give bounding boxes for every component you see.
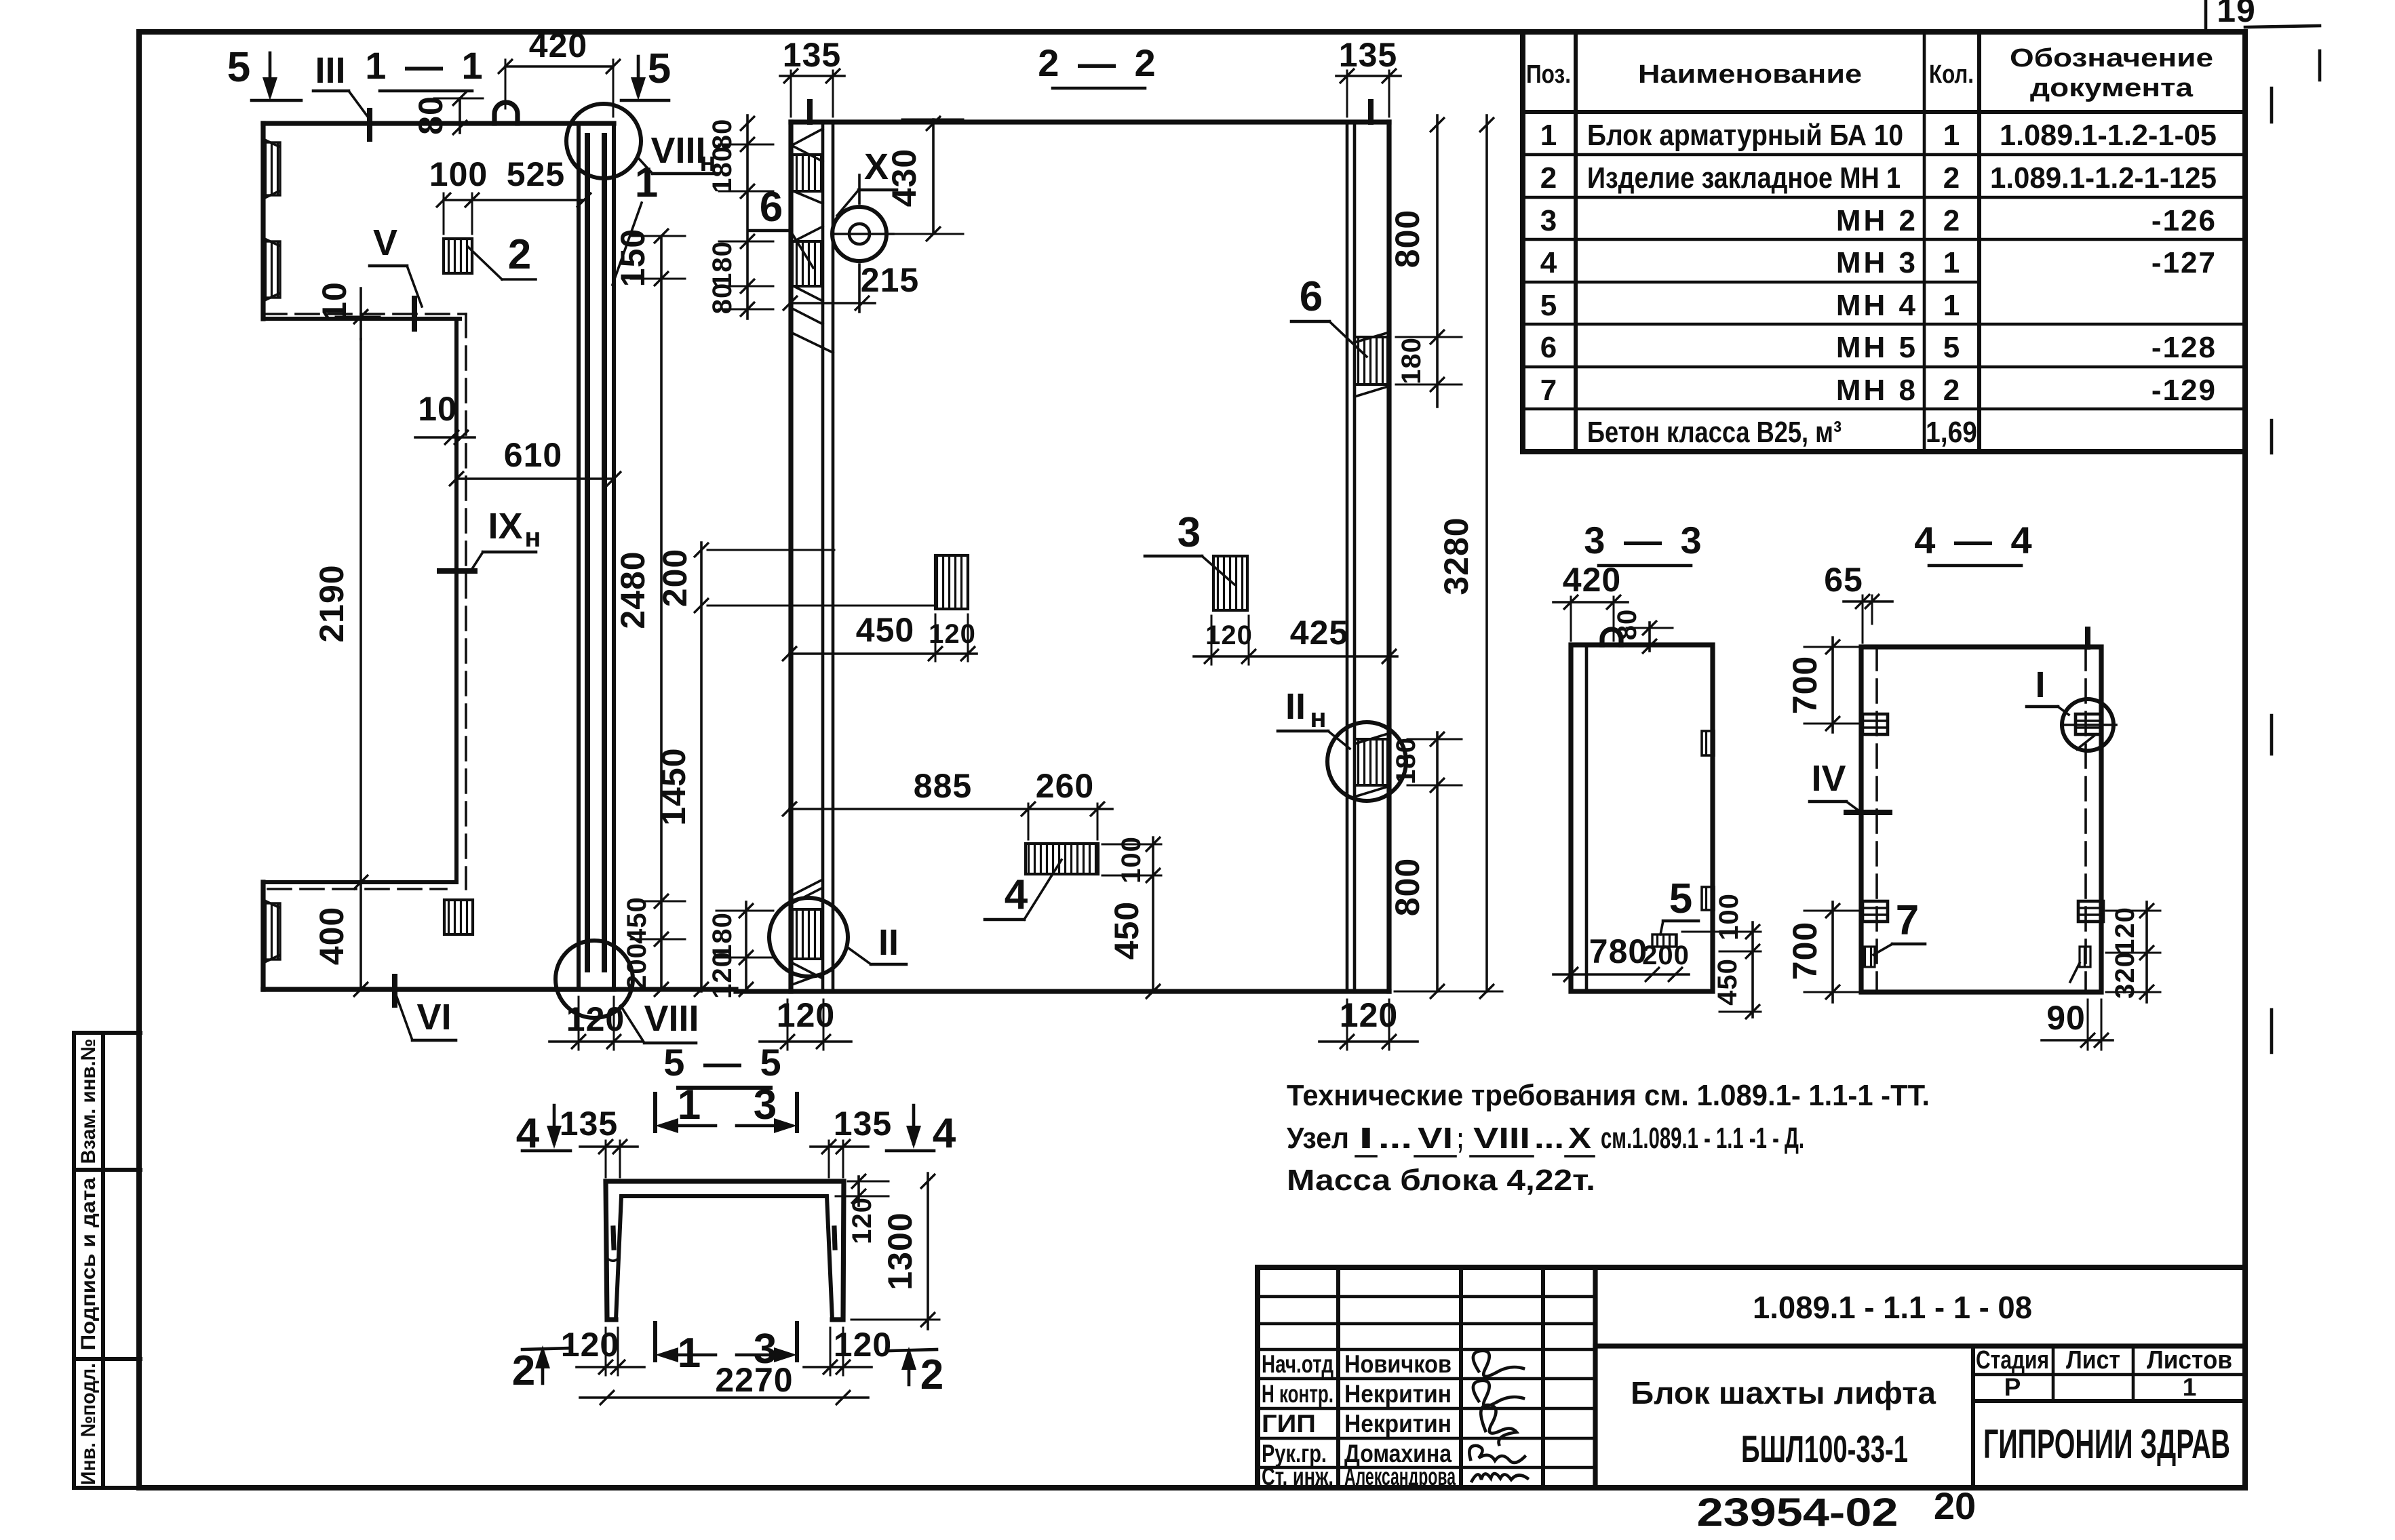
svg-text:Поз.: Поз. — [1526, 60, 1571, 89]
embed plate in lower-left block (hatched) — [444, 900, 473, 934]
dim 120 (bottom of left wall) — [787, 1000, 789, 1050]
svg-text:-128: -128 — [2151, 331, 2217, 364]
svg-text:X: X — [1568, 1122, 1591, 1155]
table column lines — [1574, 32, 1578, 452]
svg-text:5 — 5: 5 — 5 — [663, 1041, 785, 1084]
svg-text:180: 180 — [707, 241, 737, 288]
svg-text:II: II — [878, 922, 899, 963]
channel section outline 5-5 — [606, 1181, 844, 1320]
svg-text:Некритин: Некритин — [1344, 1380, 1452, 1408]
svg-text:120: 120 — [561, 1326, 619, 1364]
svg-text:Взам. инв.№: Взам. инв.№ — [77, 1039, 100, 1164]
svg-text:450: 450 — [622, 896, 652, 944]
embed plate 4 (hatched horizontal) — [1026, 844, 1098, 874]
svg-text:5: 5 — [648, 45, 671, 92]
svg-text:120: 120 — [929, 619, 976, 649]
svg-text:IX: IX — [488, 506, 522, 547]
upper edge embed tab 3-3 — [1702, 731, 1714, 755]
svg-text:10: 10 — [315, 281, 353, 321]
svg-text:260: 260 — [1036, 767, 1094, 805]
svg-text:135: 135 — [1339, 36, 1397, 74]
dim 65 (4-4 top left) — [1844, 600, 1892, 603]
svg-text:МН 8: МН 8 — [1836, 374, 1918, 407]
svg-text:Кол.: Кол. — [1929, 60, 1974, 89]
svg-text:120: 120 — [834, 1326, 892, 1364]
svg-text:3280: 3280 — [1437, 517, 1475, 595]
svg-text:2270: 2270 — [715, 1361, 793, 1399]
svg-text:2: 2 — [920, 1351, 943, 1398]
svg-text:610: 610 — [504, 436, 562, 474]
lifting loop on top edge — [494, 102, 518, 123]
anchor washer detail (node X) — [832, 207, 887, 261]
dim chain 180/120 (lower left inside) — [745, 902, 747, 991]
title block left rows — [1258, 1295, 1595, 1299]
view 1-1 right wall strip outer lines — [577, 123, 581, 989]
dim chain 2480 / 450 / 200 (right side) — [660, 279, 663, 989]
svg-text:200: 200 — [1642, 941, 1690, 970]
node II-n label and detail circle — [1327, 722, 1406, 801]
rebar dash right leg — [834, 1228, 835, 1248]
svg-text:1,69: 1,69 — [1926, 416, 1977, 449]
svg-text:4: 4 — [1540, 246, 1557, 279]
svg-text:400: 400 — [313, 907, 351, 965]
svg-text:2: 2 — [508, 231, 531, 278]
svg-text:120: 120 — [1205, 620, 1253, 650]
svg-text:1450: 1450 — [655, 747, 693, 825]
dim 120 (5-5 bottom right) — [830, 1328, 832, 1375]
rebar stub 4-4 — [2085, 629, 2090, 647]
dim chain 180/800 (right of 2-2, bottom) — [1436, 732, 1439, 991]
svg-text:1 — 1: 1 — 1 — [365, 44, 486, 87]
svg-text:1300: 1300 — [881, 1212, 919, 1290]
svg-text:VIII: VIII — [644, 998, 699, 1039]
embed right lower 4-4 — [2078, 901, 2103, 922]
svg-text:VIII: VIII — [650, 130, 705, 171]
svg-text:7: 7 — [1540, 374, 1557, 407]
svg-text:200: 200 — [656, 549, 694, 607]
svg-text:Масса блока 4,22т.: Масса блока 4,22т. — [1287, 1164, 1595, 1197]
signature squiggles — [1473, 1351, 1523, 1377]
small embed 7 right bottom 4-4 — [2080, 947, 2090, 967]
lower block top edge hidden dashed — [268, 888, 446, 890]
svg-text:IV: IV — [1811, 758, 1846, 799]
groove with embed, upper-left wall 1 — [263, 139, 279, 199]
svg-text:2480: 2480 — [614, 551, 652, 629]
dim 420 (top) — [505, 65, 613, 68]
fold marks right margin — [2270, 88, 2274, 122]
svg-text:180: 180 — [707, 146, 737, 193]
svg-text:120: 120 — [777, 996, 835, 1034]
svg-text:100: 100 — [1714, 893, 1744, 941]
svg-text:2: 2 — [1943, 204, 1960, 237]
view 1-1 top wall edge — [263, 121, 614, 125]
svg-text:3 — 3: 3 — 3 — [1584, 519, 1705, 561]
svg-text:80: 80 — [707, 119, 737, 151]
detail circle VIII-n (top of wall) — [566, 104, 641, 178]
svg-text:1: 1 — [635, 159, 658, 206]
dim 430 (top right area of 2-2) — [932, 119, 935, 234]
dim 135 (right wall top) — [1336, 75, 1401, 77]
embed left upper 4-4 — [1863, 714, 1888, 734]
svg-text:1: 1 — [1943, 289, 1960, 322]
section mark 3 (bottom) — [795, 1323, 799, 1360]
svg-text:5: 5 — [227, 44, 250, 91]
svg-text:Нач.отд: Нач.отд — [1262, 1350, 1333, 1378]
svg-text:Александрова: Александрова — [1344, 1463, 1456, 1490]
view 1-1 left wall edge (upper block) — [260, 123, 265, 319]
dim 80 (3-3 loop) — [1648, 623, 1651, 651]
svg-text:4: 4 — [933, 1110, 956, 1157]
dim 3280 (overall height) — [1485, 115, 1488, 991]
svg-text:450: 450 — [1108, 901, 1146, 960]
dim 120 (bottom of right wall) — [1346, 1000, 1348, 1050]
underline roman VI — [1415, 1155, 1456, 1158]
dim chain 80/180/180/80 (left of 2-2) — [746, 115, 749, 319]
svg-text:н: н — [1310, 703, 1327, 733]
svg-text:700: 700 — [1786, 922, 1824, 980]
svg-text:120: 120 — [566, 1000, 625, 1038]
svg-text:см.1.089.1 - 1.1 -1 - Д.: см.1.089.1 - 1.1 -1 - Д. — [1601, 1122, 1804, 1155]
dim 1300 (5-5 right) — [927, 1173, 929, 1329]
svg-text:135: 135 — [783, 36, 841, 74]
crack mark left leg — [608, 1259, 618, 1261]
middle embed plate (left area) — [935, 555, 968, 609]
stadia cells — [1971, 1346, 1975, 1488]
svg-text:90: 90 — [2046, 999, 2086, 1037]
svg-text:120: 120 — [2110, 907, 2140, 954]
table header separator — [1523, 110, 2244, 114]
detail circle VIII (bottom of wall) — [556, 941, 633, 1018]
dim 135 (5-5 top right) — [811, 1145, 868, 1148]
svg-text:450: 450 — [1713, 958, 1742, 1006]
left wall bottom embed plate with wedges — [792, 880, 821, 903]
svg-text:БШЛ100-33-1: БШЛ100-33-1 — [1741, 1427, 1908, 1470]
svg-text:525: 525 — [507, 155, 565, 193]
svg-text:425: 425 — [1290, 614, 1348, 652]
door opening jamb: hidden vertical (dashed) — [465, 314, 467, 889]
svg-text:Ст. инж.: Ст. инж. — [1262, 1463, 1333, 1490]
2-2 right wall inner lines — [1346, 122, 1349, 991]
svg-text:450: 450 — [856, 611, 914, 649]
view 1-1/2-2 shared bottom baseline left part — [263, 987, 736, 991]
svg-text:;: ; — [1457, 1122, 1464, 1155]
svg-text:180: 180 — [1397, 337, 1426, 384]
2-2 left wall inner lines — [821, 122, 825, 991]
svg-text:Обозначение: Обозначение — [2010, 44, 2213, 73]
big cell divider — [1595, 1343, 2245, 1348]
svg-text:135: 135 — [560, 1105, 618, 1143]
svg-text:1: 1 — [2183, 1373, 2197, 1401]
dim 100 / 525 (plate 2 position) — [444, 199, 584, 201]
dim 135 (5-5 top left) — [580, 1145, 638, 1148]
rebar stub top of left wall — [807, 102, 813, 122]
view 1-1 left wall edge (lower block) — [260, 882, 265, 989]
dim 90 (4-4 bottom) — [2087, 1000, 2089, 1050]
dashed axis left 4-4 — [1875, 647, 1878, 992]
dim 100 / 450 (plate 4 vertical) — [1152, 837, 1154, 991]
detail circle II (bottom left wall) — [769, 898, 848, 976]
view 3-3 outline — [1571, 645, 1713, 991]
svg-text:1: 1 — [678, 1330, 701, 1377]
svg-text:Бетон класса В25, м³: Бетон класса В25, м³ — [1587, 416, 1842, 449]
svg-text:1: 1 — [1943, 246, 1960, 279]
svg-text:Подпись и дата: Подпись и дата — [77, 1177, 100, 1350]
svg-text:780: 780 — [1589, 932, 1648, 970]
leader and label 2 — [468, 247, 502, 279]
svg-text:120: 120 — [1340, 996, 1398, 1034]
svg-text:Узел: Узел — [1287, 1122, 1349, 1155]
svg-text:Блок шахты лифта: Блок шахты лифта — [1631, 1375, 1936, 1410]
svg-text:2 — 2: 2 — 2 — [1038, 41, 1159, 84]
lower edge embed tab 3-3 — [1702, 887, 1714, 910]
svg-text:-127: -127 — [2151, 246, 2217, 279]
svg-text:-126: -126 — [2151, 204, 2217, 237]
dim 150 (right of wall) — [660, 236, 663, 279]
dim 700 (4-4 upper left) — [1831, 637, 1834, 732]
dim 120 (5-5 bottom left) — [605, 1328, 607, 1375]
top right sheet edge marks — [2204, 1, 2208, 31]
dim chain 800/180 (right of 2-2, top) — [1436, 115, 1439, 407]
svg-text:документа: документа — [2030, 74, 2194, 102]
svg-text:100: 100 — [1116, 836, 1146, 884]
rebar stub top of right wall — [1368, 102, 1374, 122]
svg-text:1.089.1-1.2-1-05: 1.089.1-1.2-1-05 — [2000, 119, 2217, 152]
svg-text:80: 80 — [707, 283, 737, 315]
svg-text:120: 120 — [847, 1197, 877, 1244]
view 2-2 top edge — [791, 119, 1389, 124]
dim 2270 (5-5 bottom) — [580, 1396, 868, 1399]
dim 610 (opening width) — [456, 477, 614, 480]
left margin stamp boxes — [74, 1033, 140, 1488]
dim 120 / 425 (plate 3) — [1194, 655, 1397, 658]
svg-text:215: 215 — [861, 261, 919, 299]
svg-text:VI: VI — [1418, 1122, 1453, 1155]
svg-text:2: 2 — [1943, 374, 1960, 407]
svg-text:5: 5 — [1669, 875, 1692, 922]
dim 885 / 260 (plate 4 position) — [790, 808, 1112, 810]
view 4-4 outline — [1861, 647, 2101, 992]
svg-text:6: 6 — [1300, 273, 1323, 320]
underline roman VIII — [1471, 1155, 1533, 1158]
detail circle I — [2062, 699, 2114, 751]
section mark 1 (bottom) — [653, 1323, 657, 1360]
small embed 7 left bottom 4-4 — [1864, 947, 1875, 967]
dim 450 / 120 (middle plate) — [790, 652, 977, 655]
dim 420 (3-3 top) — [1553, 601, 1628, 604]
svg-text:2190: 2190 — [313, 564, 351, 642]
svg-text:ГИП: ГИП — [1262, 1410, 1316, 1438]
svg-text:19: 19 — [2217, 0, 2256, 29]
svg-text:1: 1 — [1943, 119, 1960, 152]
door opening jamb: solid vertical — [454, 319, 459, 882]
table row lines — [1523, 153, 2244, 157]
embed plate 5 — [1652, 934, 1677, 947]
embed in detail circle I — [2076, 714, 2101, 734]
svg-text:800: 800 — [1388, 210, 1426, 268]
view 1-1 right wall dowel bars — [585, 136, 590, 970]
right wall embed plate 6 with wedges — [1355, 332, 1389, 342]
channel inner profile 5-5 — [616, 1196, 832, 1320]
dim 120 (5-5 right top) — [857, 1177, 860, 1206]
dim 135 (left wall top) — [780, 75, 844, 77]
svg-text:2: 2 — [1540, 161, 1557, 195]
svg-text:420: 420 — [529, 26, 587, 64]
dim chain 2190 / 400 (left side) — [359, 339, 362, 989]
dim chain 200 / 1450 (left inside 2-2) — [700, 542, 703, 991]
2-2 left wall outer line — [788, 122, 793, 991]
dim 80 (loop height) — [459, 98, 461, 133]
section mark 3 (top) — [795, 1094, 799, 1131]
view 3-3 inner face line — [1585, 645, 1589, 991]
svg-text:20: 20 — [1934, 1484, 1976, 1527]
svg-text:Технические требования см. 1: Технические требования см. 1.089.1- 1.1-… — [1287, 1079, 1930, 1112]
svg-text:135: 135 — [834, 1105, 892, 1143]
svg-text:700: 700 — [1786, 656, 1824, 714]
svg-text:2: 2 — [1943, 161, 1960, 195]
svg-text:2: 2 — [512, 1347, 535, 1394]
title block verticals — [1336, 1267, 1340, 1488]
svg-text:5: 5 — [1540, 289, 1557, 322]
svg-text:885: 885 — [914, 767, 972, 805]
section mark 1 (top) — [653, 1094, 657, 1131]
dim 780 / 200 (3-3 bottom) — [1553, 973, 1689, 976]
svg-text:4 — 4: 4 — 4 — [1914, 519, 2036, 561]
svg-text:Листов: Листов — [2147, 1346, 2232, 1375]
svg-text:Стадия: Стадия — [1976, 1346, 2049, 1375]
specification table outer border — [1523, 32, 2244, 452]
lifting loop 3-3 — [1602, 629, 1621, 645]
embed left lower 4-4 — [1863, 901, 1888, 922]
svg-text:23954-02: 23954-02 — [1697, 1490, 1899, 1535]
svg-text:III: III — [315, 50, 345, 91]
svg-text:Некритин: Некритин — [1344, 1410, 1452, 1438]
svg-text:Изделие закладное МН 1: Изделие закладное МН 1 — [1587, 161, 1901, 195]
svg-text:6: 6 — [1540, 331, 1557, 364]
svg-text:80: 80 — [412, 96, 450, 135]
svg-text:150: 150 — [614, 229, 652, 287]
svg-text:320: 320 — [2110, 951, 2140, 999]
2-2 right wall outer line — [1386, 122, 1391, 991]
svg-text:4: 4 — [1005, 871, 1028, 918]
merged row line (rows 4-5, not in last column) — [1523, 281, 1979, 284]
underline roman X — [1565, 1155, 1594, 1158]
rebar dash left leg — [613, 1228, 614, 1248]
view 1-1 bottom wall edge — [263, 987, 614, 991]
svg-text:ГИПРОНИИ ЗДРАВ: ГИПРОНИИ ЗДРАВ — [1983, 1421, 2230, 1467]
dim 100 / 450 (3-3 right) — [1751, 922, 1754, 1017]
svg-text:1: 1 — [678, 1082, 701, 1128]
dim 120 (bottom of wall strip) — [578, 997, 580, 1050]
svg-text:3: 3 — [754, 1082, 777, 1128]
svg-text:Н контр.: Н контр. — [1262, 1380, 1333, 1408]
svg-text:3: 3 — [1177, 509, 1201, 556]
svg-text:II: II — [1285, 686, 1306, 727]
svg-text:5: 5 — [1943, 331, 1960, 364]
svg-text:I: I — [2035, 665, 2045, 705]
svg-text:VIII: VIII — [1473, 1122, 1530, 1155]
svg-text:Инв. №подл.: Инв. №подл. — [77, 1363, 100, 1485]
underline roman I — [1356, 1155, 1376, 1158]
svg-text:...: ... — [1378, 1122, 1412, 1155]
svg-text:...: ... — [1534, 1122, 1564, 1155]
svg-text:МН 4: МН 4 — [1836, 289, 1918, 322]
svg-text:-129: -129 — [2151, 374, 2217, 407]
svg-text:200: 200 — [622, 943, 652, 990]
svg-text:100: 100 — [429, 155, 488, 193]
svg-text:80: 80 — [1612, 609, 1642, 641]
svg-text:Наименование: Наименование — [1638, 60, 1862, 89]
svg-text:1: 1 — [1540, 119, 1557, 152]
svg-text:Р: Р — [2004, 1373, 2021, 1401]
svg-text:V: V — [373, 222, 397, 263]
svg-text:3: 3 — [1540, 204, 1557, 237]
leader and label 1 — [612, 203, 642, 285]
svg-text:Лист: Лист — [2066, 1346, 2120, 1375]
svg-text:МН 3: МН 3 — [1836, 246, 1918, 279]
svg-text:430: 430 — [885, 149, 923, 207]
groove with embed, lower-left wall — [263, 900, 279, 963]
svg-text:н: н — [524, 523, 541, 553]
dim 215 (anchor offset) — [790, 302, 875, 304]
left wall top embed plate 2 with wedges — [794, 226, 823, 241]
svg-text:65: 65 — [1824, 561, 1863, 599]
svg-text:1.089.1-1.2-1-125: 1.089.1-1.2-1-125 — [1990, 161, 2217, 195]
svg-text:VI: VI — [416, 997, 451, 1038]
left wall top embed plate 1 with wedges — [794, 129, 823, 161]
view 2-2 bottom edge — [736, 989, 1389, 993]
svg-text:800: 800 — [1388, 858, 1426, 916]
dim 700 (4-4 lower left) — [1831, 902, 1834, 1002]
svg-text:Блок арматурный БА 10: Блок арматурный БА 10 — [1587, 119, 1903, 152]
lower block top edge solid — [263, 880, 456, 884]
dashed axis right 4-4 — [2084, 647, 2087, 992]
groove with embed, upper-left wall 2 — [263, 238, 279, 301]
svg-text:7: 7 — [1896, 897, 1919, 944]
svg-text:420: 420 — [1563, 561, 1621, 599]
title block outline — [1258, 1267, 2245, 1488]
svg-text:1.089.1 - 1.1 - 1 - 08: 1.089.1 - 1.1 - 1 - 08 — [1753, 1290, 2032, 1325]
svg-text:I: I — [1359, 1122, 1374, 1155]
svg-text:120: 120 — [707, 951, 737, 999]
right wall embed plate in circle II-n — [1355, 734, 1388, 744]
svg-text:Новичков: Новичков — [1344, 1350, 1452, 1378]
svg-text:10: 10 — [418, 390, 457, 428]
embed plate 3 (hatched) — [1213, 556, 1247, 610]
svg-text:МН 2: МН 2 — [1836, 204, 1918, 237]
hidden edge (dashed) of upper block bottom — [263, 313, 466, 315]
svg-text:180: 180 — [1391, 737, 1421, 785]
dim 120/320 (4-4 right) — [2145, 902, 2148, 1002]
svg-text:МН 5: МН 5 — [1836, 331, 1918, 364]
embed plate 2 (hatched) — [444, 239, 472, 273]
solid inner edge of upper block bottom — [263, 317, 460, 321]
